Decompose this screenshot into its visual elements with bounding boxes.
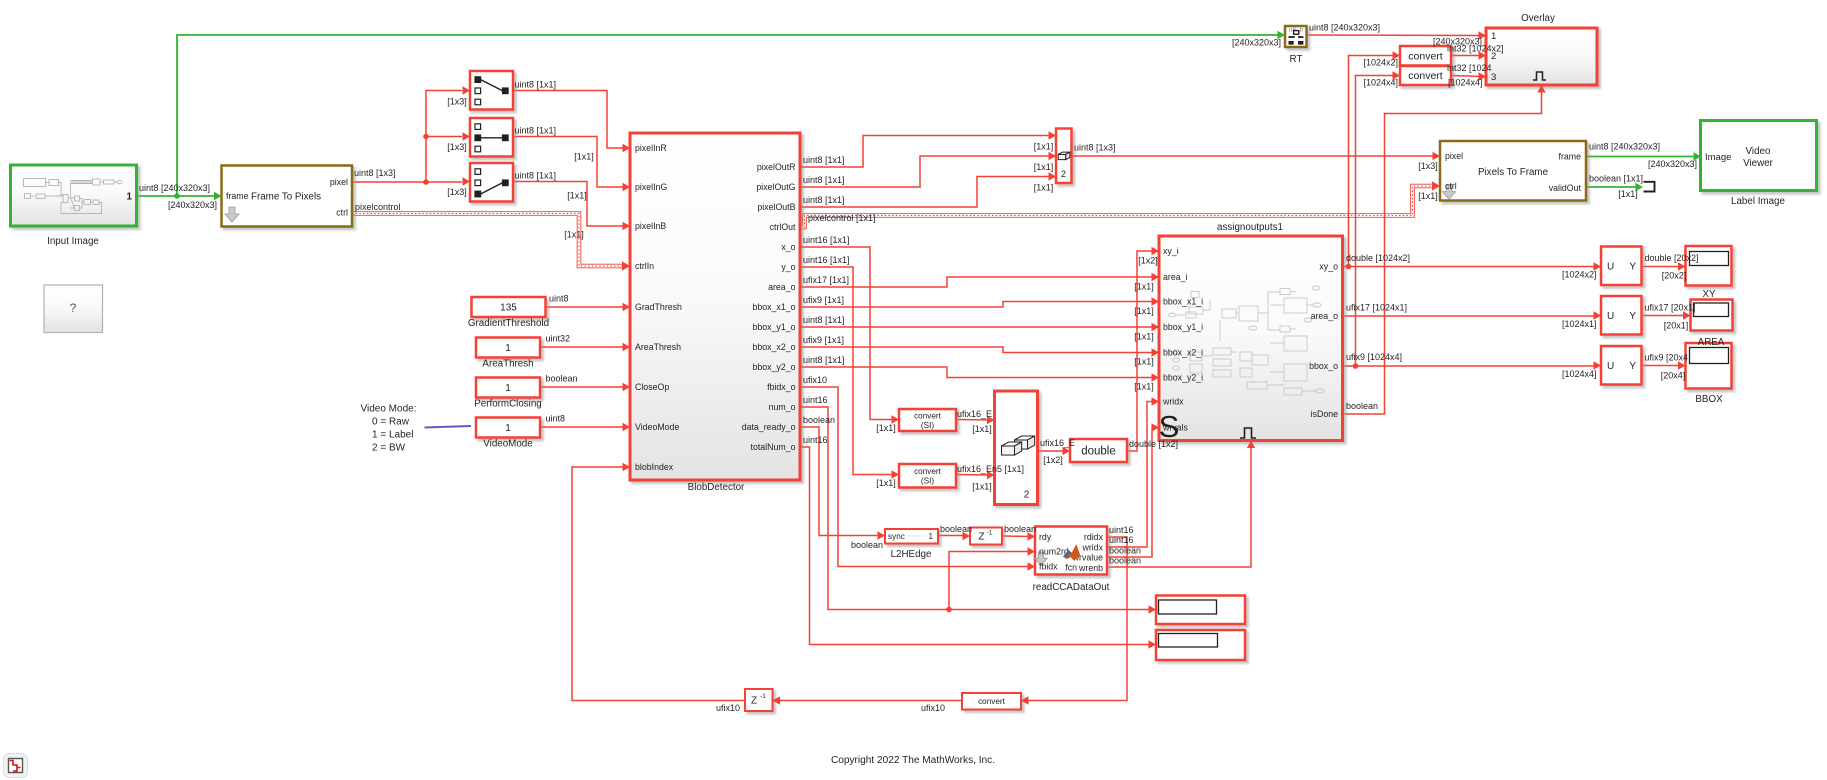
svg-text:1 = Label: 1 = Label <box>372 430 413 441</box>
svg-text:[1x3]: [1x3] <box>1418 161 1438 171</box>
svg-text:1: 1 <box>505 343 511 354</box>
svg-text:1: 1 <box>1491 31 1496 42</box>
svg-text:rdidx: rdidx <box>1084 532 1104 542</box>
svg-text:blobIndex: blobIndex <box>635 462 674 472</box>
svg-text:[1x1]: [1x1] <box>1418 191 1438 201</box>
svg-text:bbox_y2_i: bbox_y2_i <box>1163 373 1203 383</box>
svg-text:ufix9 [1x1]: ufix9 [1x1] <box>803 295 844 305</box>
svg-text:pixelOutR: pixelOutR <box>757 162 796 172</box>
svg-text:convert: convert <box>914 467 942 476</box>
svg-text:[240x320x3]: [240x320x3] <box>168 200 217 210</box>
svg-text:area_o: area_o <box>1311 311 1338 321</box>
svg-text:2 = BW: 2 = BW <box>372 443 406 454</box>
svg-text:Z: Z <box>978 532 984 543</box>
svg-text:[1x1]: [1x1] <box>567 191 587 201</box>
svg-text:pixel: pixel <box>1445 151 1463 161</box>
svg-text:2: 2 <box>1061 169 1066 179</box>
svg-text:(SI): (SI) <box>921 421 934 430</box>
svg-text:xy_o: xy_o <box>1319 262 1338 272</box>
svg-text:frame: frame <box>226 191 249 201</box>
svg-text:uint8 [1x1]: uint8 [1x1] <box>803 175 845 185</box>
svg-text:rdy: rdy <box>1039 532 1052 542</box>
svg-text:Video: Video <box>1746 146 1771 157</box>
svg-text:[1024x2]: [1024x2] <box>1363 58 1398 68</box>
svg-text:L2HEdge: L2HEdge <box>891 549 932 560</box>
svg-text:Y: Y <box>1629 262 1636 273</box>
svg-text:[1024x4]: [1024x4] <box>1562 369 1597 379</box>
svg-text:wridx: wridx <box>1162 397 1184 407</box>
svg-text:uint8 [240x320x3]: uint8 [240x320x3] <box>1309 23 1380 33</box>
svg-text:Y: Y <box>1629 311 1636 322</box>
svg-text:totalNum_o: totalNum_o <box>751 442 796 452</box>
svg-text:readCCADataOut: readCCADataOut <box>1033 582 1110 593</box>
svg-text:convert: convert <box>1408 70 1443 82</box>
svg-text:ufix10: ufix10 <box>803 375 827 385</box>
svg-text:int32 [1024x2]: int32 [1024x2] <box>1447 44 1504 54</box>
svg-text:pixel: pixel <box>330 177 348 187</box>
svg-text:[1x1]: [1x1] <box>1618 189 1638 199</box>
svg-text:[1x2]: [1x2] <box>1138 256 1158 266</box>
svg-text:GradThresh: GradThresh <box>635 302 682 312</box>
svg-text:pixelInG: pixelInG <box>635 182 667 192</box>
svg-text:-1: -1 <box>760 693 766 700</box>
svg-text:U: U <box>1607 361 1614 372</box>
svg-text:uint8 [1x1]: uint8 [1x1] <box>803 195 845 205</box>
svg-text:bbox_x1_o: bbox_x1_o <box>752 302 795 312</box>
svg-text:Video Mode:: Video Mode: <box>361 404 417 415</box>
svg-text:uint8 [1x3]: uint8 [1x3] <box>354 168 396 178</box>
svg-text:uint8 [240x320x3]: uint8 [240x320x3] <box>1589 142 1660 152</box>
svg-text:assignoutputs1: assignoutputs1 <box>1217 222 1283 233</box>
svg-text:[20x1]: [20x1] <box>1664 321 1689 331</box>
svg-text:ufix17 [1x1]: ufix17 [1x1] <box>803 275 849 285</box>
svg-text:AreaThresh: AreaThresh <box>482 359 533 370</box>
svg-text:ufix16_E: ufix16_E <box>1040 438 1075 448</box>
svg-text:Image: Image <box>1705 152 1731 163</box>
svg-text:validOut: validOut <box>1549 183 1582 193</box>
svg-text:pixelInR: pixelInR <box>635 143 667 153</box>
svg-text:x_o: x_o <box>781 242 795 252</box>
svg-text:wridx: wridx <box>1081 543 1103 553</box>
svg-text:[1x1]: [1x1] <box>1034 162 1054 172</box>
svg-text:RT: RT <box>1290 54 1303 65</box>
svg-text:ufix9 [1024x4]: ufix9 [1024x4] <box>1346 352 1402 362</box>
svg-text:convert: convert <box>978 697 1006 706</box>
svg-text:?: ? <box>70 301 77 315</box>
svg-text:uint8 [1x1]: uint8 [1x1] <box>803 355 845 365</box>
svg-text:area_i: area_i <box>1163 272 1187 282</box>
svg-text:fcn: fcn <box>1065 563 1077 573</box>
svg-text:uint8 [1x1]: uint8 [1x1] <box>515 126 557 136</box>
svg-text:ufix10: ufix10 <box>921 703 945 713</box>
svg-text:y_o: y_o <box>781 262 795 272</box>
svg-text:Viewer: Viewer <box>1743 158 1774 169</box>
svg-text:ctrlOut: ctrlOut <box>770 222 796 232</box>
svg-text:[1x1]: [1x1] <box>876 423 896 433</box>
svg-text:U: U <box>1607 262 1614 273</box>
svg-text:data_ready_o: data_ready_o <box>742 422 796 432</box>
svg-text:[1x1]: [1x1] <box>972 424 992 434</box>
svg-text:1: 1 <box>505 423 511 434</box>
svg-text:ctrl: ctrl <box>1445 181 1457 191</box>
svg-text:ufix9 [1x1]: ufix9 [1x1] <box>803 335 844 345</box>
svg-text:uint8 [1x1]: uint8 [1x1] <box>515 80 557 90</box>
svg-text:[1x1]: [1x1] <box>1034 183 1054 193</box>
svg-text:2: 2 <box>1024 490 1030 501</box>
svg-text:3: 3 <box>1491 72 1496 83</box>
svg-text:[1024x4]: [1024x4] <box>1363 78 1398 88</box>
svg-text:uint16: uint16 <box>1109 525 1134 535</box>
svg-text:isDone: isDone <box>1311 409 1338 419</box>
svg-text:boolean: boolean <box>1109 556 1141 566</box>
svg-text:[20x4]: [20x4] <box>1661 371 1686 381</box>
svg-text:[1x3]: [1x3] <box>447 97 467 107</box>
svg-text:ufix9 [20x4: ufix9 [20x4 <box>1645 353 1689 363</box>
svg-text:frame: frame <box>1559 152 1582 162</box>
svg-text:[1024x2]: [1024x2] <box>1562 270 1597 280</box>
svg-text:[1x1]: [1x1] <box>1034 142 1054 152</box>
svg-text:[1024x4]: [1024x4] <box>1448 78 1483 88</box>
svg-text:Overlay: Overlay <box>1521 13 1555 24</box>
svg-text:boolean: boolean <box>940 524 972 534</box>
svg-text:[1x1]: [1x1] <box>574 152 594 162</box>
svg-text:fbidx_o: fbidx_o <box>767 382 795 392</box>
svg-text:[1x1]: [1x1] <box>972 482 992 492</box>
svg-text:VideoMode: VideoMode <box>635 422 679 432</box>
svg-text:boolean: boolean <box>803 415 835 425</box>
svg-text:pixelOutG: pixelOutG <box>756 182 795 192</box>
svg-text:uint16 [1x1]: uint16 [1x1] <box>803 255 850 265</box>
svg-text:double [1x2]: double [1x2] <box>1129 439 1178 449</box>
svg-text:uint32: uint32 <box>546 334 571 344</box>
svg-text:xy_i: xy_i <box>1163 246 1179 256</box>
svg-text:BBOX: BBOX <box>1695 394 1723 405</box>
svg-text:uint8 [1x1]: uint8 [1x1] <box>803 315 845 325</box>
svg-text:[1x1]: [1x1] <box>1134 332 1154 342</box>
svg-text:-1: -1 <box>987 530 993 537</box>
svg-text:GradientThreshold: GradientThreshold <box>468 318 549 329</box>
svg-text:uint16 [1x1]: uint16 [1x1] <box>803 235 850 245</box>
svg-text:boolean: boolean <box>1109 546 1141 556</box>
svg-text:CloseOp: CloseOp <box>635 382 669 392</box>
svg-text:VideoMode: VideoMode <box>483 439 533 450</box>
svg-text:[1x1]: [1x1] <box>1134 382 1154 392</box>
svg-text:bbox_x1_i: bbox_x1_i <box>1163 297 1203 307</box>
svg-text:1: 1 <box>928 532 933 541</box>
svg-text:boolean: boolean <box>1004 524 1036 534</box>
svg-text:bbox_o: bbox_o <box>1309 361 1338 371</box>
svg-text:U: U <box>1607 311 1614 322</box>
svg-text:[1x1]: [1x1] <box>1134 357 1154 367</box>
svg-text:pixelInB: pixelInB <box>635 221 666 231</box>
svg-text:[1024x1]: [1024x1] <box>1562 319 1597 329</box>
svg-text:area_o: area_o <box>768 282 795 292</box>
svg-text:wrenb: wrenb <box>1078 563 1103 573</box>
svg-text:sync: sync <box>888 532 905 541</box>
svg-text:uint8 [1x3]: uint8 [1x3] <box>1074 143 1116 153</box>
svg-text:1: 1 <box>127 192 133 203</box>
svg-text:pixelcontrol [1x1]: pixelcontrol [1x1] <box>808 213 876 223</box>
svg-text:uint8: uint8 <box>546 414 566 424</box>
svg-text:[1x1]: [1x1] <box>564 230 584 240</box>
svg-text:boolean: boolean <box>1346 401 1378 411</box>
svg-text:ctrlIn: ctrlIn <box>635 261 654 271</box>
svg-text:[1x1]: [1x1] <box>1134 306 1154 316</box>
svg-text:ufix17 [20x1]: ufix17 [20x1] <box>1645 303 1696 313</box>
svg-text:PerformClosing: PerformClosing <box>474 399 542 410</box>
svg-text:ufix16_E: ufix16_E <box>957 409 992 419</box>
svg-text:AreaThresh: AreaThresh <box>635 342 681 352</box>
svg-text:[240x320x3]: [240x320x3] <box>1648 159 1697 169</box>
svg-text:convert: convert <box>914 412 942 421</box>
svg-text:double [1024x2]: double [1024x2] <box>1346 253 1410 263</box>
svg-text:num_o: num_o <box>769 402 796 412</box>
svg-text:Frame To Pixels: Frame To Pixels <box>251 191 321 202</box>
svg-text:double [20x2]: double [20x2] <box>1645 253 1699 263</box>
svg-text:ufix17 [1024x1]: ufix17 [1024x1] <box>1346 303 1407 313</box>
svg-text:(SI): (SI) <box>921 477 934 486</box>
svg-text:fbidx: fbidx <box>1039 562 1058 572</box>
svg-text:Pixels To Frame: Pixels To Frame <box>1478 167 1549 178</box>
svg-text:BlobDetector: BlobDetector <box>688 482 745 493</box>
svg-text:uint16: uint16 <box>803 435 828 445</box>
svg-text:Copyright 2022 The MathWorks,: Copyright 2022 The MathWorks, Inc. <box>831 755 995 766</box>
svg-text:convert: convert <box>1408 51 1443 63</box>
svg-text:ctrl: ctrl <box>336 208 348 218</box>
svg-text:Input Image: Input Image <box>47 236 99 247</box>
svg-text:[1x1]: [1x1] <box>1134 282 1154 292</box>
svg-text:[20x2]: [20x2] <box>1662 271 1687 281</box>
svg-text:uint16: uint16 <box>803 395 828 405</box>
svg-text:ufix16_En5 [1x1]: ufix16_En5 [1x1] <box>957 464 1024 474</box>
svg-text:int32 [1024: int32 [1024 <box>1447 63 1492 73</box>
svg-text:uint16: uint16 <box>1109 535 1134 545</box>
svg-text:[240x320x3]: [240x320x3] <box>1232 38 1281 48</box>
svg-text:bbox_y1_i: bbox_y1_i <box>1163 322 1203 332</box>
svg-text:boolean [1x1]: boolean [1x1] <box>1589 174 1643 184</box>
svg-text:AREA: AREA <box>1698 337 1725 348</box>
svg-text:bbox_x2_o: bbox_x2_o <box>752 342 795 352</box>
svg-text:double: double <box>1081 446 1116 458</box>
svg-text:Label Image: Label Image <box>1731 196 1785 207</box>
svg-text:Z: Z <box>751 696 757 707</box>
svg-text:boolean: boolean <box>546 374 578 384</box>
svg-text:XY: XY <box>1702 289 1716 300</box>
svg-text:uint8 [1x1]: uint8 [1x1] <box>515 171 557 181</box>
svg-text:[1x3]: [1x3] <box>447 187 467 197</box>
svg-text:pixelOutB: pixelOutB <box>757 202 795 212</box>
svg-text:pixelcontrol: pixelcontrol <box>355 202 401 212</box>
svg-text:[1x3]: [1x3] <box>447 142 467 152</box>
svg-text:uint8 [240x320x3]: uint8 [240x320x3] <box>139 183 210 193</box>
svg-text:135: 135 <box>500 303 517 314</box>
svg-text:ufix10: ufix10 <box>716 703 740 713</box>
svg-text:Y: Y <box>1629 361 1636 372</box>
svg-text:1: 1 <box>505 383 511 394</box>
svg-text:boolean: boolean <box>851 540 883 550</box>
svg-text:[1x2]: [1x2] <box>1043 455 1063 465</box>
svg-text:uint8: uint8 <box>549 294 569 304</box>
svg-text:bbox_y2_o: bbox_y2_o <box>752 362 795 372</box>
svg-text:uint8 [1x1]: uint8 [1x1] <box>803 155 845 165</box>
svg-text:[1x1]: [1x1] <box>876 478 896 488</box>
svg-text:bbox_y1_o: bbox_y1_o <box>752 322 795 332</box>
svg-text:bbox_x2_i: bbox_x2_i <box>1163 348 1203 358</box>
svg-text:0 = Raw: 0 = Raw <box>372 417 410 428</box>
